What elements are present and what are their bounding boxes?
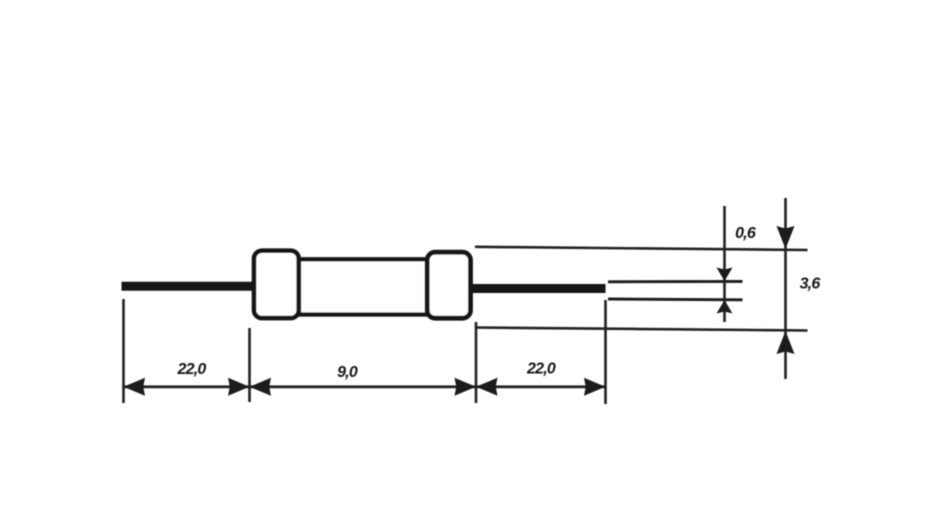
svg-text:22,0: 22,0 (526, 360, 556, 377)
svg-text:3,6: 3,6 (800, 275, 821, 292)
svg-text:0,6: 0,6 (735, 225, 756, 242)
svg-text:9,0: 9,0 (337, 364, 358, 381)
svg-text:22,0: 22,0 (177, 361, 207, 378)
